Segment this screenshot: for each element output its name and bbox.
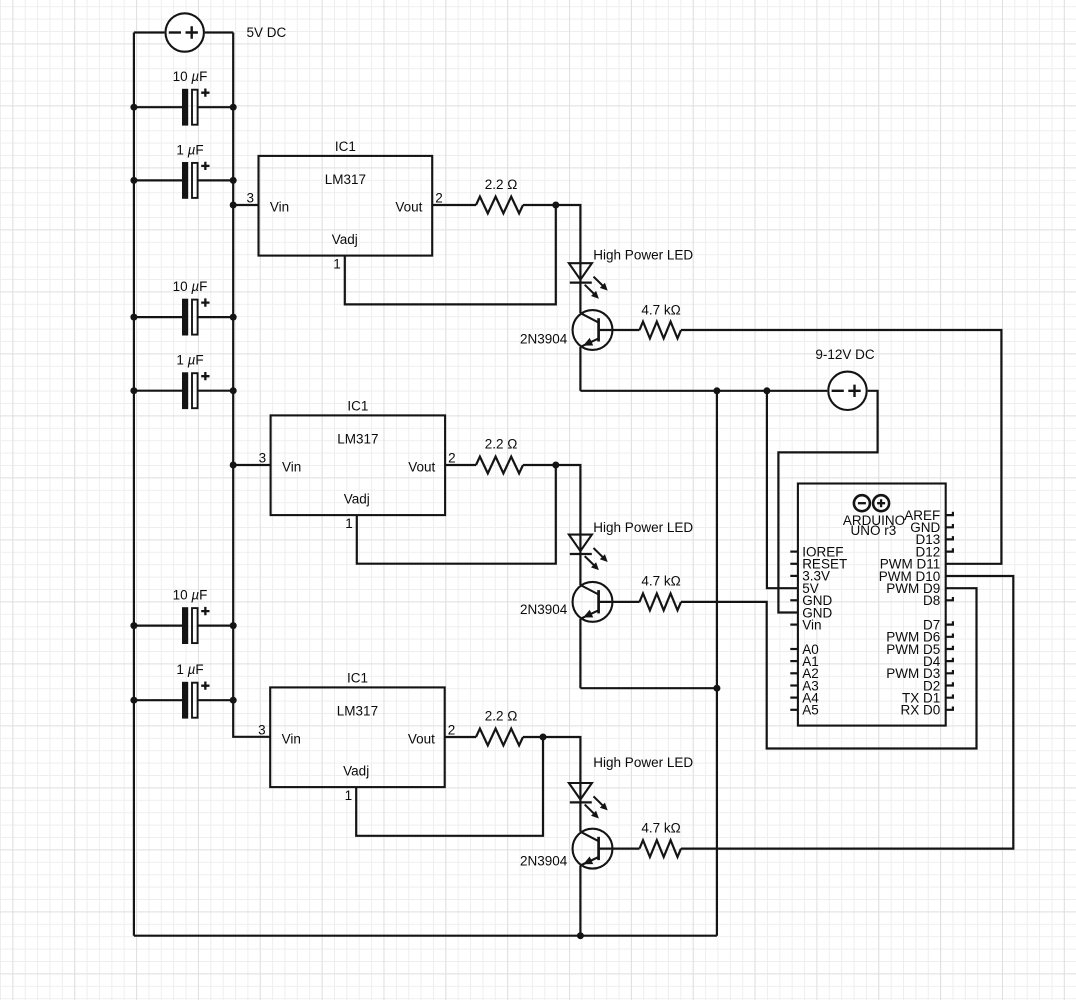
wire emitter stage 1: [579, 347, 581, 391]
svg-text:9-12V DC: 9-12V DC: [815, 347, 875, 362]
svg-text:3: 3: [246, 191, 254, 206]
pin stub D8: [946, 597, 953, 600]
svg-text:2: 2: [448, 723, 456, 738]
pin stub PWM D3: [946, 670, 953, 673]
junction C6 left rail: [130, 697, 137, 704]
svg-text:5V DC: 5V DC: [247, 25, 287, 40]
junction bottom rail stage3: [577, 932, 584, 939]
svg-text:High Power LED: High Power LED: [593, 755, 693, 770]
pin stub Vin: [790, 623, 798, 625]
resistor R3 2.2 ohm: [476, 729, 523, 746]
wire Vout node stage 1: [523, 205, 580, 283]
resistor R6 4.7 kohm: [640, 840, 682, 857]
junction C6 right rail: [230, 697, 237, 704]
pin stub RESET: [790, 563, 798, 565]
wire emitter bus vertical: [716, 391, 718, 936]
svg-text:1 µF: 1 µF: [176, 142, 203, 157]
junction node stage 2: [552, 462, 559, 469]
junction C4 left rail: [130, 387, 137, 394]
svg-text:High Power LED: High Power LED: [593, 248, 693, 263]
wire emitter rail stage2: [580, 687, 717, 689]
svg-text:Vin: Vin: [282, 460, 301, 475]
resistor R2 2.2 ohm: [476, 457, 523, 474]
wire Vout node stage 2: [523, 465, 580, 554]
pin stub A1: [790, 660, 798, 662]
wire V1 right to cap rail: [205, 31, 233, 33]
svg-text:RX D0: RX D0: [901, 703, 941, 718]
pin stub D12: [946, 548, 953, 551]
resistor R1 2.2 ohm: [476, 197, 523, 214]
junction C5 right rail: [230, 622, 237, 629]
pin stub GND: [790, 599, 798, 601]
svg-text:Vout: Vout: [408, 732, 435, 747]
svg-text:LM317: LM317: [325, 172, 366, 187]
LED D2 high power: [569, 535, 592, 552]
svg-text:2.2 Ω: 2.2 Ω: [485, 709, 518, 724]
junction node stage 3: [540, 734, 547, 741]
wire emitter stage 3: [579, 866, 581, 936]
wire minus rail stage1 to V2: [580, 390, 827, 392]
capacitor C5 10 µF: [134, 624, 182, 626]
junction C3 right rail: [230, 314, 237, 321]
svg-text:3: 3: [258, 723, 266, 738]
pin stub D7: [946, 621, 953, 624]
junction bus top: [713, 387, 720, 394]
pin stub IOREF: [790, 550, 798, 552]
svg-text:IC1: IC1: [347, 398, 368, 413]
capacitor C2 1 µF: [134, 179, 182, 181]
wire base to arduino stage 1: [681, 330, 1001, 564]
svg-text:1: 1: [345, 516, 353, 531]
regulator IC1 LM317 stage 3: [270, 687, 445, 787]
junction C1 right rail: [230, 104, 237, 111]
wire base to arduino stage 3: [681, 576, 1013, 849]
wire base stage 1: [599, 329, 640, 331]
svg-text:10 µF: 10 µF: [173, 588, 208, 603]
svg-text:IC1: IC1: [347, 670, 368, 685]
svg-text:Vin: Vin: [282, 732, 301, 747]
wire left rail (5V minus): [133, 33, 135, 936]
svg-text:Vin: Vin: [270, 200, 289, 215]
pin stub TX D1: [946, 694, 953, 697]
svg-text:4.7 kΩ: 4.7 kΩ: [641, 821, 680, 836]
wire Vin stage 1: [233, 204, 258, 206]
junction C3 left rail: [130, 314, 137, 321]
wire Vout stage 3: [445, 736, 476, 738]
junction C5 left rail: [130, 622, 137, 629]
regulator IC1 LM317 stage 1: [259, 156, 433, 256]
svg-text:Vout: Vout: [408, 460, 435, 475]
svg-text:4.7 kΩ: 4.7 kΩ: [641, 574, 680, 589]
wire base to arduino stage 2: [681, 588, 977, 748]
svg-text:10 µF: 10 µF: [173, 69, 208, 84]
microcontroller U1 Arduino UNO r3: [798, 484, 946, 726]
wire bottom rail: [134, 935, 717, 937]
pin stub PWM D6: [946, 634, 953, 637]
svg-text:1: 1: [345, 788, 353, 803]
wire emitter stage 2: [579, 619, 581, 688]
svg-text:High Power LED: High Power LED: [593, 520, 693, 535]
svg-text:LM317: LM317: [337, 704, 378, 719]
svg-text:2N3904: 2N3904: [520, 602, 568, 617]
junction C2 right rail: [230, 177, 237, 184]
wire Vin stage 2: [233, 464, 270, 466]
svg-text:2N3904: 2N3904: [520, 853, 568, 868]
pin stub D13: [946, 536, 953, 539]
svg-text:Vadj: Vadj: [344, 492, 370, 507]
svg-text:2.2 Ω: 2.2 Ω: [485, 436, 518, 451]
junction C2 left rail: [130, 177, 137, 184]
junction C4 right rail: [230, 387, 237, 394]
LED D1 high power: [569, 263, 592, 280]
junction bus stage2: [713, 685, 720, 692]
pin stub A5: [790, 709, 798, 711]
transistor Q3 2N3904: [573, 829, 613, 869]
svg-text:1 µF: 1 µF: [176, 662, 203, 677]
svg-text:4.7 kΩ: 4.7 kΩ: [641, 303, 680, 318]
pin stub RX D0: [946, 707, 953, 710]
junction Vin stage 2: [230, 462, 237, 469]
svg-text:1: 1: [333, 257, 341, 272]
wire LED to transistor stage 3: [579, 802, 581, 831]
junction 5V tap: [763, 387, 770, 394]
pin stub GND: [946, 524, 953, 527]
svg-text:A5: A5: [802, 703, 819, 718]
voltage source V1 5V DC: [166, 13, 204, 51]
wire Vadj feedback stage 1: [345, 205, 556, 304]
wire base stage 2: [599, 601, 640, 603]
transistor Q2 2N3904: [573, 582, 613, 622]
wire Vadj feedback stage 3: [356, 737, 543, 836]
capacitor C6 1 µF: [134, 699, 182, 701]
pin stub A2: [790, 672, 798, 674]
pin stub AREF: [946, 512, 953, 515]
pin stub A3: [790, 684, 798, 686]
capacitor C1 10 µF: [134, 106, 182, 108]
wire top-left from V1 to left rail: [134, 31, 165, 33]
arduino logo: [854, 495, 870, 511]
svg-text:2.2 Ω: 2.2 Ω: [485, 177, 518, 192]
wire 5V pin from minus rail: [767, 391, 798, 588]
pin stub A4: [790, 696, 798, 698]
svg-text:Vin: Vin: [802, 617, 821, 632]
capacitor C3 10 µF: [134, 316, 182, 318]
resistor R4 4.7 kohm: [640, 322, 682, 339]
svg-text:Vout: Vout: [395, 200, 422, 215]
wire right cap rail to Vin of IC1 stage3: [233, 33, 270, 737]
svg-text:2: 2: [435, 191, 443, 206]
pin stub 3.3V: [790, 575, 798, 577]
wire LED to transistor stage 1: [579, 283, 581, 314]
pin stub PWM D5: [946, 646, 953, 649]
svg-text:LM317: LM317: [337, 432, 378, 447]
svg-text:IC1: IC1: [335, 139, 356, 154]
wire V2 plus to GND pin: [778, 391, 877, 613]
svg-text:2N3904: 2N3904: [520, 331, 568, 346]
regulator IC1 LM317 stage 2: [271, 415, 446, 515]
junction Vin stage 1: [230, 202, 237, 209]
svg-text:UNO r3: UNO r3: [851, 523, 897, 538]
svg-text:D8: D8: [923, 593, 940, 608]
junction C1 left rail: [130, 104, 137, 111]
LED D3 high power: [569, 783, 592, 800]
svg-text:10 µF: 10 µF: [173, 279, 208, 294]
wire Vout stage 2: [445, 464, 476, 466]
junction node stage 1: [552, 202, 559, 209]
wire Vout node stage 3: [523, 737, 580, 802]
pin stub A0: [790, 648, 798, 650]
wire LED to transistor stage 2: [579, 554, 581, 585]
wire Vout stage 1: [432, 204, 476, 206]
svg-text:3: 3: [259, 451, 267, 466]
pin stub D4: [946, 658, 953, 661]
transistor Q1 2N3904: [573, 310, 613, 350]
wire base stage 3: [599, 847, 640, 849]
resistor R5 4.7 kohm: [640, 594, 682, 611]
capacitor C4 1 µF: [134, 390, 182, 392]
svg-text:Vadj: Vadj: [343, 764, 369, 779]
voltage source V2 9-12V DC: [828, 372, 866, 410]
svg-text:1 µF: 1 µF: [176, 353, 203, 368]
pin stub D2: [946, 682, 953, 685]
svg-text:2: 2: [448, 451, 456, 466]
wire Vadj feedback stage 2: [357, 465, 556, 564]
svg-text:Vadj: Vadj: [332, 232, 358, 247]
